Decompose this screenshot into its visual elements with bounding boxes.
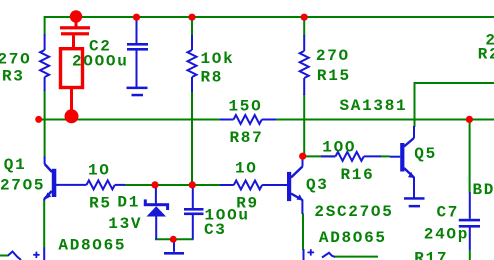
svg-text:R15: R15 bbox=[317, 67, 351, 85]
svg-text:Q3: Q3 bbox=[306, 176, 329, 194]
svg-text:2OOOu: 2OOOu bbox=[72, 53, 129, 71]
svg-text:D1: D1 bbox=[117, 194, 140, 212]
svg-text:27O5: 27O5 bbox=[0, 177, 45, 195]
svg-text:R5: R5 bbox=[89, 195, 112, 213]
svg-text:27O: 27O bbox=[316, 47, 350, 65]
svg-text:1O: 1O bbox=[235, 160, 258, 178]
svg-text:1O: 1O bbox=[88, 162, 111, 180]
svg-text:SA1381: SA1381 bbox=[340, 97, 408, 115]
svg-text:R8: R8 bbox=[201, 68, 224, 86]
svg-text:1OO: 1OO bbox=[322, 139, 356, 157]
svg-text:24Op: 24Op bbox=[424, 226, 469, 244]
svg-text:R24: R24 bbox=[478, 46, 494, 64]
svg-text:Q1: Q1 bbox=[4, 156, 27, 174]
svg-text:Q5: Q5 bbox=[414, 145, 437, 163]
svg-text:1Ok: 1Ok bbox=[201, 50, 235, 68]
svg-text:R3: R3 bbox=[2, 68, 25, 86]
svg-text:2SC27O5: 2SC27O5 bbox=[314, 203, 393, 221]
svg-text:15O: 15O bbox=[229, 98, 263, 116]
svg-text:R16: R16 bbox=[341, 166, 375, 184]
svg-text:C7: C7 bbox=[437, 204, 460, 222]
svg-text:27O: 27O bbox=[0, 51, 31, 69]
svg-text:R87: R87 bbox=[230, 129, 264, 147]
svg-text:R17: R17 bbox=[414, 249, 448, 260]
svg-text:BD139: BD139 bbox=[473, 181, 494, 199]
svg-text:C3: C3 bbox=[204, 221, 227, 239]
svg-text:AD8O65: AD8O65 bbox=[58, 237, 126, 255]
svg-text:13V: 13V bbox=[108, 215, 142, 233]
svg-text:AD8O65: AD8O65 bbox=[319, 229, 387, 247]
